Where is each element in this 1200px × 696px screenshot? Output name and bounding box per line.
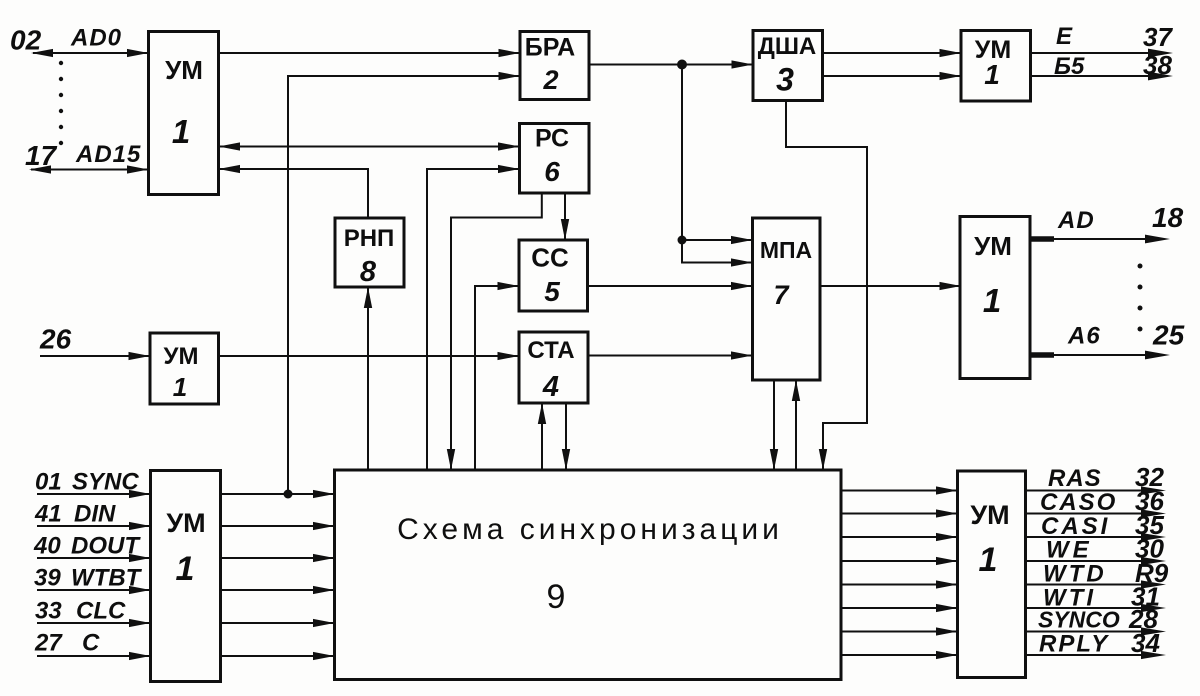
wire BRA node down to MPA inputs [682, 65, 753, 267]
block UM1 mid-left (pin 26) [150, 333, 219, 404]
wire output SYNCO pin 28 [1026, 627, 1167, 635]
wire pin 39 WTBT into UM1 [37, 586, 151, 594]
block 9 sync circuit [335, 470, 842, 680]
wire node branch to MPA input 1 [682, 236, 753, 244]
label УМ 1 bottom-left [166, 508, 205, 588]
wire pin 41 DIN into UM1 [37, 522, 151, 530]
svg-text:AD: AD [1057, 207, 1095, 234]
svg-text:CLC: CLC [76, 598, 126, 625]
svg-text:1: 1 [172, 113, 190, 150]
pin label 41 DIN [34, 501, 116, 528]
block DSHA 3 [753, 31, 823, 101]
label УМ 1 top-left [165, 55, 203, 150]
label СС 5 [531, 243, 569, 308]
block RS 6 [520, 124, 590, 194]
svg-text:СТА: СТА [527, 337, 574, 364]
svg-text:3: 3 [776, 62, 794, 98]
block BRA 2 [520, 32, 589, 100]
svg-text:39: 39 [34, 565, 61, 592]
wire pin 01 SYNC into UM1 [37, 490, 151, 498]
net label ADO [70, 25, 122, 52]
wire box9 to UM1 WTI line [841, 604, 958, 612]
svg-text:1: 1 [173, 372, 187, 402]
wire box9 to UM1 WTD line [841, 580, 958, 588]
wire UM1 to box9 C line [221, 652, 335, 660]
svg-text:25: 25 [1152, 320, 1185, 351]
wire UM1 mid-left to STA [219, 352, 520, 360]
wire pin 40 DOUT into UM1 [37, 554, 151, 562]
block STA 4 [519, 332, 588, 403]
svg-text:C: C [82, 630, 100, 657]
wire BRA to DSHA [589, 60, 753, 68]
svg-text:18: 18 [1152, 202, 1184, 233]
wire box9 up to RS input 2 [427, 165, 520, 470]
wire output AD pin 18 [1030, 235, 1170, 244]
wire MPA bottom down to box9 [770, 380, 778, 470]
wire UM1 to box9 SYNC line [221, 490, 335, 498]
block UM1 top-left address buffer [149, 32, 219, 195]
net label RPLY pin 34 [1039, 628, 1160, 658]
pin label 26 [39, 324, 72, 355]
svg-text:1: 1 [176, 550, 195, 588]
svg-text:СС: СС [531, 243, 569, 273]
wire output CASO pin 36 [1026, 509, 1167, 517]
wire pin 27 C into UM1 [37, 652, 151, 660]
svg-text:1: 1 [979, 541, 998, 579]
label УМ 1 bottom-right [970, 500, 1009, 579]
label Схема синхронизации 9 [397, 513, 783, 616]
wire box9 up into MPA bottom [792, 380, 800, 470]
wire output WE pin 30 [1026, 557, 1167, 565]
label СТА 4 [527, 337, 574, 403]
label РС 6 [535, 125, 569, 188]
pin label 27 C [34, 630, 100, 657]
block UM1 bottom-left [151, 471, 221, 682]
svg-text:34: 34 [1131, 628, 1160, 658]
pin label 02 [10, 25, 42, 56]
wire output WTI pin 31 [1026, 604, 1167, 612]
svg-text:41: 41 [34, 501, 62, 528]
net label CASO pin 36 [1040, 486, 1164, 516]
label ДША 3 [758, 33, 817, 98]
svg-text:УМ: УМ [970, 500, 1009, 530]
svg-text:SYNCO: SYNCO [1038, 607, 1120, 633]
svg-text:РС: РС [535, 125, 569, 153]
net label WE pin 30 [1046, 534, 1164, 564]
label УМ 1 mid-right [974, 231, 1012, 319]
svg-text:37: 37 [1143, 22, 1173, 52]
net label CASI pin 35 [1041, 510, 1164, 540]
svg-text:01: 01 [35, 469, 62, 496]
svg-text:9: 9 [547, 578, 566, 616]
net label Б5 [1054, 53, 1085, 80]
wire output B5 pin 38 [1031, 72, 1174, 81]
svg-text:7: 7 [773, 280, 790, 310]
net label A6 [1067, 323, 1101, 350]
wire box9 up to SS input [475, 282, 519, 470]
wire DSHA to UM1 top-right line 2 [823, 72, 962, 80]
pin label 38 [1143, 50, 1172, 80]
svg-text:УМ: УМ [165, 55, 203, 85]
svg-text:RAS: RAS [1048, 465, 1102, 492]
block MPA 7 [753, 218, 821, 380]
net label WTI pin 31 [1043, 582, 1160, 612]
svg-text:РНП: РНП [344, 225, 395, 252]
wire box9 to UM1 SYNCO line [841, 627, 958, 635]
pin label 33 CLC [35, 598, 126, 625]
wire UM1 to box9 WTBT line [221, 586, 335, 594]
net label AD [1057, 207, 1095, 234]
wire MPA to UM1 mid-right [820, 282, 961, 290]
svg-text:DOUT: DOUT [71, 533, 141, 560]
svg-text:40: 40 [33, 533, 61, 560]
ellipsis dots between AD0 and AD15 [59, 61, 63, 145]
label УМ 1 mid-left [164, 343, 199, 402]
junction node at BRA output [677, 60, 687, 70]
block UM1 top-right [961, 31, 1031, 102]
ellipsis dots between AD and A6 outputs [1138, 264, 1143, 332]
svg-text:МПА: МПА [760, 237, 812, 263]
wire output RAS pin 32 [1026, 486, 1167, 494]
svg-text:1: 1 [983, 282, 1001, 319]
wire output WTD pin 29 [1026, 580, 1167, 588]
pin label 40 DOUT [33, 533, 141, 560]
wire DSHA to UM1 top-right line 1 [823, 49, 962, 57]
net label SYNCO pin 28 [1038, 604, 1158, 634]
wire box9 to UM1 RPLY line [841, 651, 958, 659]
svg-text:4: 4 [542, 371, 559, 403]
pin label 01 SYNC [35, 469, 139, 496]
label БРА 2 [525, 34, 576, 96]
svg-text:Схема синхронизации: Схема синхронизации [397, 513, 783, 546]
pin label 39 WTBT [34, 565, 143, 592]
pin label 37 [1143, 22, 1173, 52]
wire STA to MPA [588, 351, 753, 359]
block UM1 mid-right [960, 217, 1030, 379]
svg-text:33: 33 [35, 598, 62, 625]
svg-text:УМ: УМ [974, 231, 1012, 261]
junction node on SYNC line [284, 490, 293, 499]
block UM1 bottom-right [958, 471, 1026, 678]
net label AD15 [75, 141, 141, 168]
svg-text:WE: WE [1046, 537, 1093, 564]
svg-text:AD15: AD15 [75, 141, 141, 168]
svg-text:БРА: БРА [525, 34, 576, 62]
net label E [1056, 23, 1073, 50]
wire box9 to UM1 CASO line [841, 509, 958, 517]
net label WTD pin 29 [1043, 558, 1169, 588]
svg-text:27: 27 [34, 630, 63, 657]
wire box9 to UM1 CASI line [841, 533, 958, 541]
pin label 25 [1152, 320, 1185, 351]
svg-text:ДША: ДША [758, 33, 817, 60]
label МПА 7 [760, 237, 812, 310]
wire output A6 pin 25 [1030, 351, 1170, 360]
wire box9 to UM1 WE line [841, 557, 958, 565]
wire RNP to UM1 [219, 165, 369, 218]
svg-text:E: E [1056, 23, 1073, 50]
svg-text:1: 1 [984, 59, 1000, 90]
svg-text:WTD: WTD [1043, 561, 1107, 588]
svg-text:Б5: Б5 [1054, 53, 1085, 80]
svg-text:6: 6 [544, 156, 560, 187]
svg-text:2: 2 [542, 65, 558, 95]
svg-text:CASO: CASO [1040, 489, 1117, 516]
svg-text:RPLY: RPLY [1039, 631, 1109, 658]
block RNP 8 [335, 218, 404, 287]
wire output E pin 37 [1031, 49, 1174, 58]
wire box9 up into STA bottom [538, 403, 546, 470]
wire pin 26 into UM1 mid-left [40, 352, 150, 360]
svg-text:02: 02 [10, 25, 42, 56]
label РНП 8 [344, 225, 395, 288]
pin label 17 [25, 140, 58, 171]
svg-text:SYNC: SYNC [72, 469, 139, 496]
wire box9 up into RNP bottom [364, 287, 372, 470]
svg-text:8: 8 [360, 256, 377, 288]
wire box9 to UM1 RAS line [841, 486, 958, 494]
wire UM1 to box9 DOUT line [221, 554, 335, 562]
wire DSHA bottom to box9 [786, 101, 867, 471]
svg-text:УМ: УМ [164, 343, 199, 370]
svg-text:5: 5 [544, 276, 560, 307]
wire RS bottom to box9 [447, 193, 542, 470]
net label RAS pin 32 [1048, 462, 1164, 492]
wire AD0 pin 02 into UM1 [31, 49, 149, 57]
svg-text:17: 17 [25, 140, 58, 171]
block SS 5 [519, 240, 588, 311]
svg-text:AD0: AD0 [70, 25, 122, 52]
wire SYNC node up to BRA input 2 [288, 72, 520, 494]
svg-text:26: 26 [39, 324, 72, 355]
wire pin 33 CLC into UM1 [37, 619, 151, 627]
svg-text:DIN: DIN [74, 501, 116, 528]
wire UM1 to box9 CLC line [221, 619, 335, 627]
wire RS bottom to SS top [561, 193, 569, 240]
junction node on MPA feed [678, 236, 687, 245]
svg-text:A6: A6 [1067, 323, 1101, 350]
label УМ 1 top-right [975, 36, 1011, 90]
wire output CASI pin 35 [1026, 533, 1167, 541]
wire STA bottom down to box9 [562, 403, 570, 470]
wire UM1 to BRA input 1 [219, 49, 521, 57]
svg-text:38: 38 [1143, 50, 1172, 80]
svg-text:WTBT: WTBT [71, 565, 143, 592]
wire output RPLY pin 34 [1026, 651, 1167, 659]
pin label 18 [1152, 202, 1184, 233]
wire RS to UM1 bus (arrows both ends) [219, 142, 520, 150]
wire UM1 to box9 DIN line [221, 522, 335, 530]
svg-text:УМ: УМ [166, 508, 205, 538]
wire AD15 pin 17 into UM1 [29, 165, 149, 173]
wire SS to MPA [588, 282, 753, 290]
